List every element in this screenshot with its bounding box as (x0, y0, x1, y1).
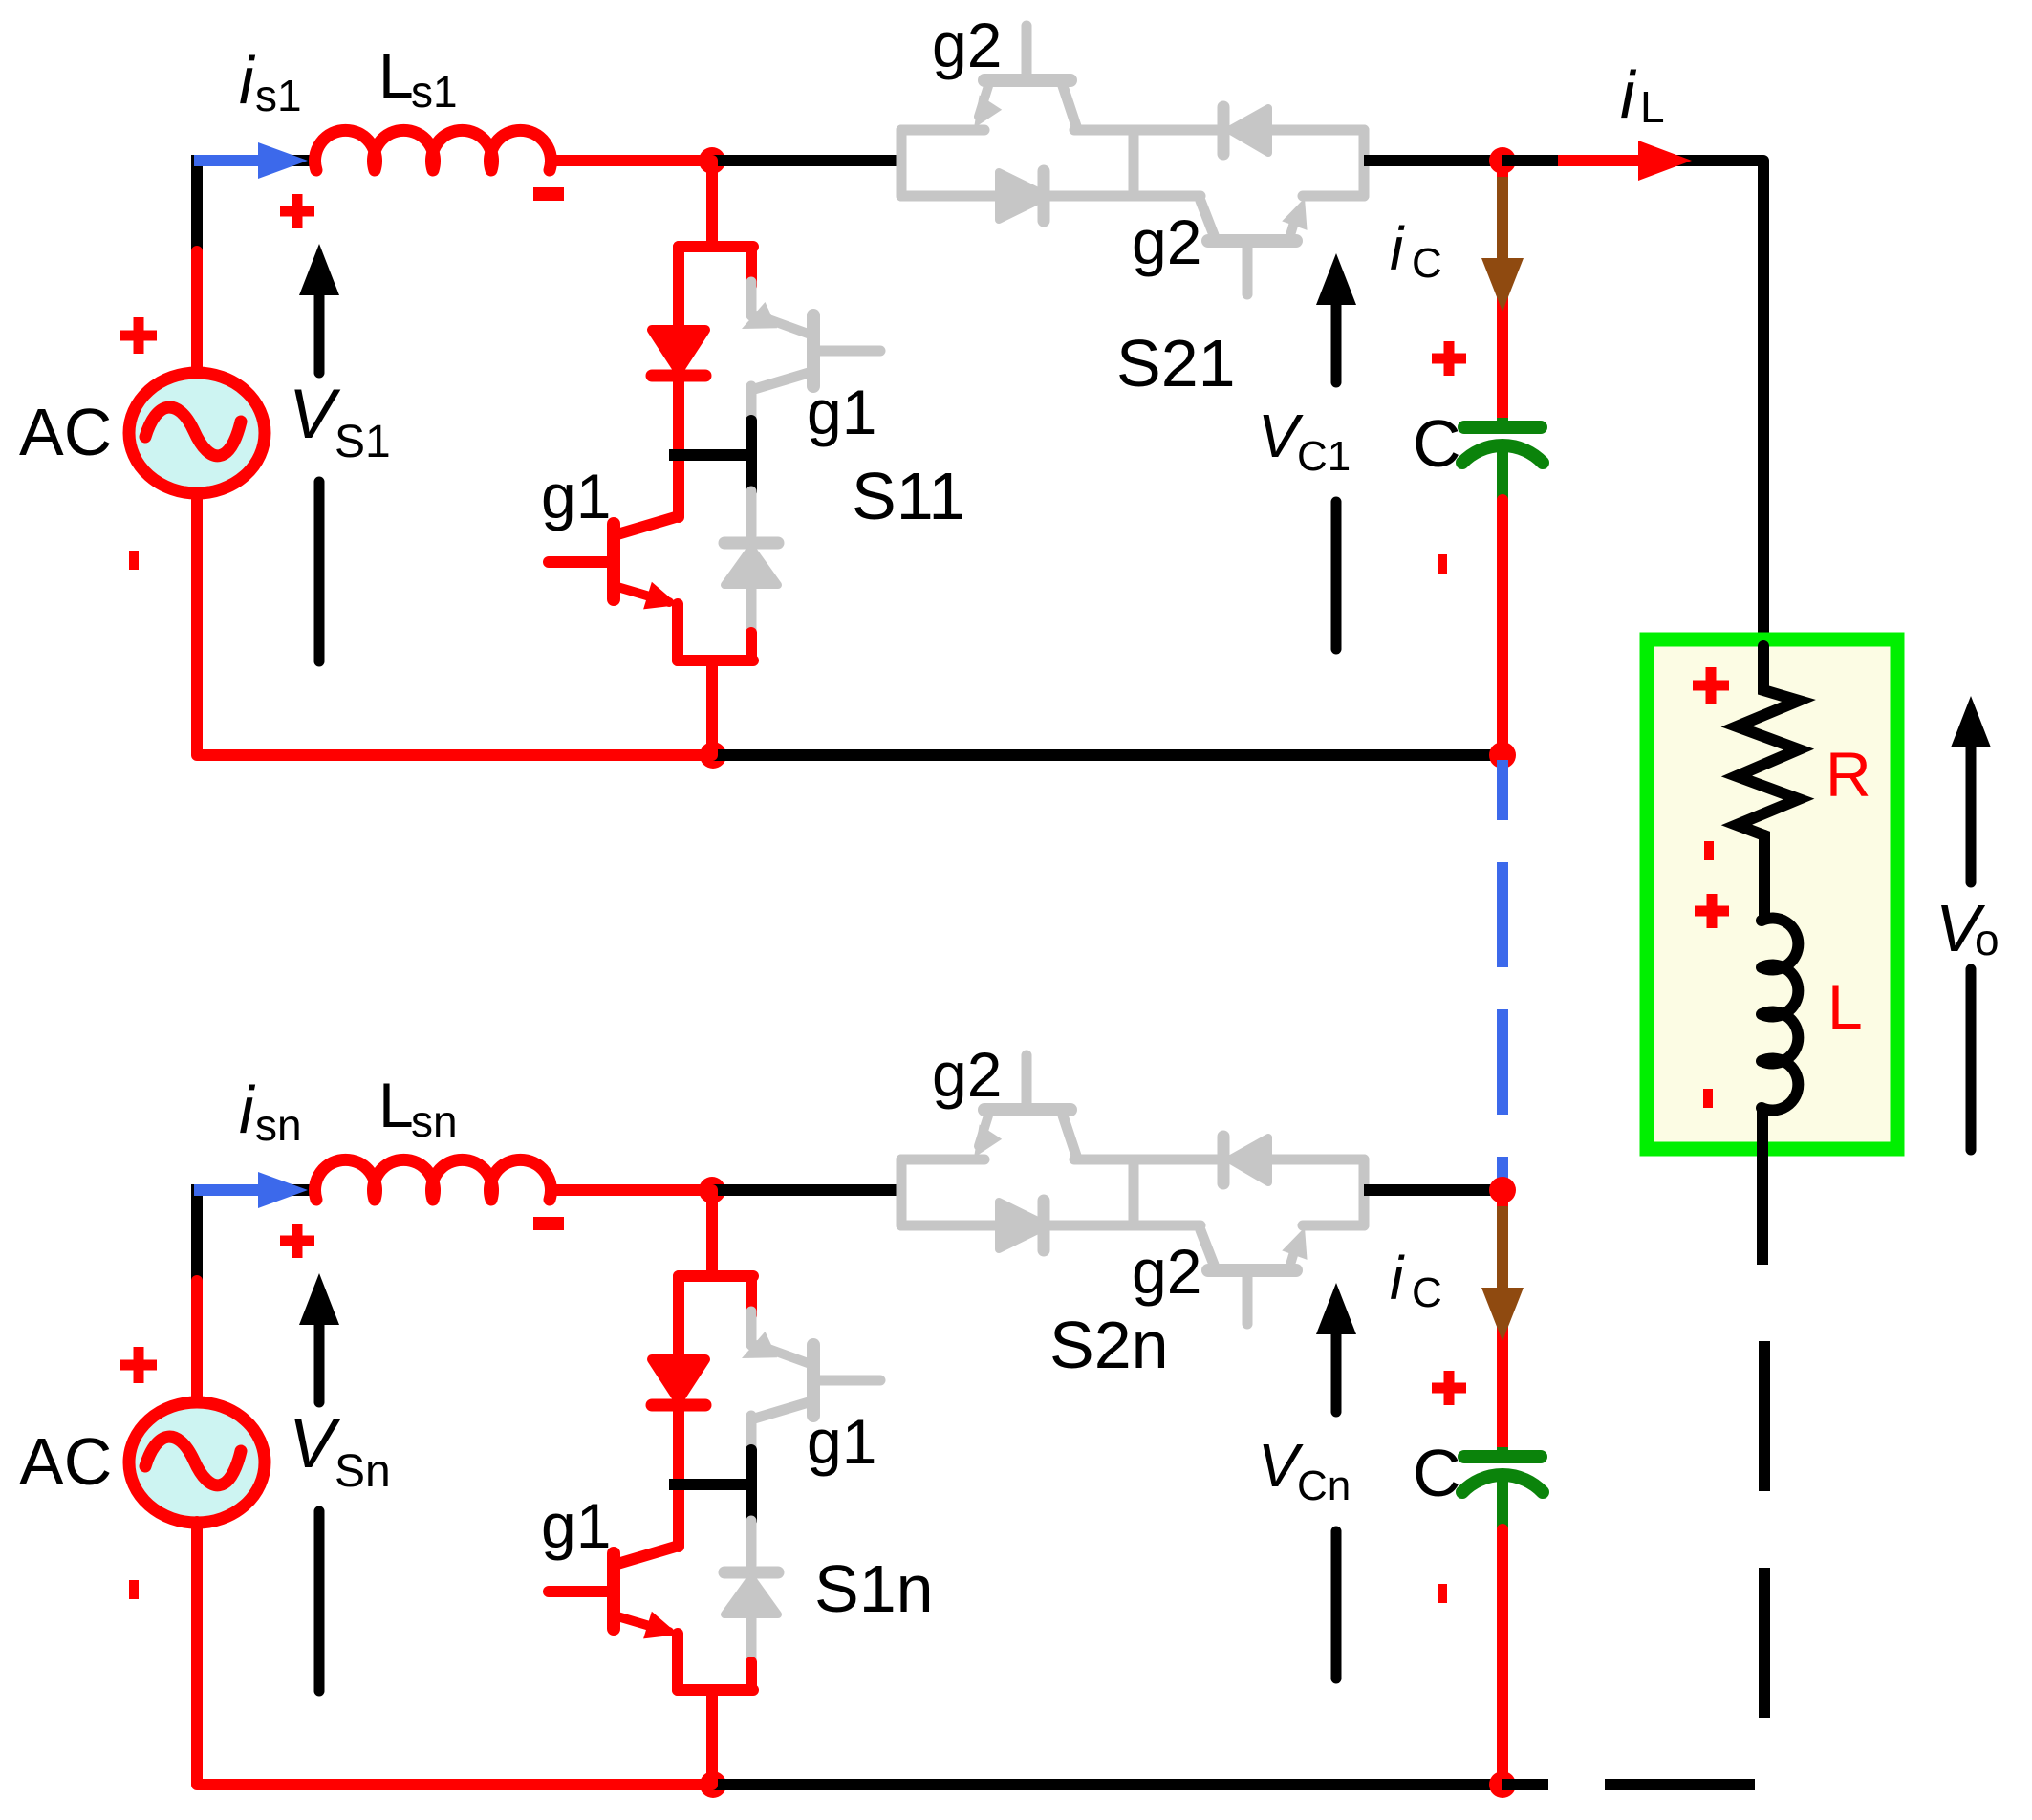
switch S11: top stub (706, 161, 718, 247)
svg-text:s1: s1 (411, 67, 458, 117)
svg-text:g2: g2 (1132, 1236, 1201, 1307)
svg-text:g1: g1 (541, 461, 611, 531)
current arrow i_C (brown) cell 1 (1497, 177, 1508, 260)
switch S2n: left terminal bar (897, 1159, 907, 1225)
switch S2n: middle junction bar (1129, 1159, 1139, 1225)
node: top junction of S1n (699, 1177, 725, 1203)
switch S1n: gray leg below diode (746, 1614, 757, 1666)
IGBT T2a1 (gray): emitter lead with arrow (979, 86, 988, 117)
wire: inductor to node of S1n (550, 1184, 712, 1196)
svg-text:S1n: S1n (814, 1551, 934, 1626)
wire: bottom rail left (red) of cell 1 (197, 749, 713, 761)
polarity - of capacitor C cell n (1438, 1584, 1447, 1603)
current arrow i_L (red) (1558, 155, 1638, 166)
svg-text:g2: g2 (932, 10, 1002, 80)
arrow V_Cn (upper part) (1331, 1334, 1342, 1412)
svg-text:i: i (1390, 1244, 1405, 1312)
node: junction below S11 (700, 742, 726, 769)
svg-text:Cn: Cn (1297, 1462, 1351, 1509)
svg-text:i: i (239, 43, 256, 118)
switch S11: gray leg above diode (746, 491, 757, 535)
svg-text:s1: s1 (255, 71, 302, 120)
svg-text:S21: S21 (1116, 326, 1236, 401)
polarity + of inductor L (1695, 906, 1729, 917)
wire: top-left black segment of cell n (292, 1184, 320, 1196)
switch S21: bottom leg left segment (901, 191, 1000, 202)
switch S21: bottom leg right segment (1303, 191, 1364, 202)
diode D2a1 (gray, conducts leftward) (1218, 107, 1230, 154)
switch S1n: right leg (gray) (746, 1311, 757, 1345)
wire: AC source VS1 top lead (black segment) (191, 155, 203, 255)
arrow V_o (upper part) (1966, 747, 1977, 882)
diode D1n (red, conducts downward) (652, 1359, 705, 1400)
gate tick (black) of S1n (669, 1479, 751, 1490)
IGBT T1b1 (gray): emitter lead with arrow (758, 315, 811, 335)
svg-text:i: i (1390, 214, 1405, 283)
switch S11: left leg upper segment (673, 247, 684, 332)
svg-text:o: o (1975, 915, 2000, 964)
wire: AC source VSn bottom lead (191, 1522, 203, 1785)
IGBT T1an (red): collector lead (617, 1546, 679, 1564)
node: top junction of capacitor C cell n (1489, 1177, 1516, 1203)
IGBT T2b1 (gray): gate lead g2 (1243, 241, 1253, 294)
svg-text:S1: S1 (335, 417, 391, 467)
svg-text:sn: sn (411, 1096, 458, 1146)
wire: capacitor C upper lead (red) cell 1 (1497, 161, 1508, 422)
switch S11: left leg middle segment (673, 376, 684, 517)
switch S1n: right leg top (red) (746, 1276, 757, 1315)
IGBT T2an (gray): body bar (984, 1103, 1070, 1116)
svg-text:R: R (1826, 739, 1871, 810)
IGBT T2an (gray): collector lead (1063, 1116, 1076, 1156)
polarity + of L_sn (280, 1236, 314, 1246)
polarity + of capacitor C cell n (1432, 1383, 1466, 1394)
IGBT T1b1 (gray): collector lead (751, 373, 809, 390)
switch S11: right leg (gray) (746, 282, 757, 315)
resistor R zigzag (1737, 646, 1799, 917)
switch S1n: gray leg above diode (746, 1521, 757, 1565)
svg-text:AC: AC (19, 1424, 112, 1499)
node: junction below capacitor C of cell 1 (1489, 742, 1516, 769)
capacitor C cell 1: upper lead (green) (1497, 418, 1508, 427)
AC source VSn sine symbol (145, 1437, 241, 1485)
gate tick (black) of S11 (669, 449, 751, 461)
svg-text:C: C (1412, 1269, 1442, 1316)
switch S21: bottom leg middle segment (1048, 191, 1200, 202)
polarity - of source VSn (129, 1580, 139, 1599)
svg-text:L: L (378, 40, 414, 111)
switch S2n: bottom leg right segment (1303, 1221, 1364, 1231)
IGBT T1b1 (gray): body bar (807, 315, 820, 386)
svg-text:i: i (1620, 57, 1637, 132)
wire: bottom rail left (red) of cell n (197, 1779, 713, 1790)
arrow V_S1 (lower part) (314, 482, 325, 661)
switch S11: right leg bottom (red) (746, 633, 757, 661)
svg-text:L: L (1827, 971, 1863, 1042)
capacitor C cell n: upper lead (green) (1497, 1447, 1508, 1457)
polarity + of capacitor C cell 1 (1432, 354, 1466, 364)
arrow V_o (lower part) (1966, 969, 1977, 1150)
polarity - of L_s1 (533, 187, 564, 201)
node: top junction of S11 (699, 147, 725, 174)
switch S2n: right terminal bar (1359, 1159, 1370, 1225)
wire: node to switch S2n (black) (712, 1184, 901, 1196)
capacitor C cell n: curved bottom plate (1462, 1475, 1543, 1492)
svg-text:L: L (1640, 82, 1665, 132)
IGBT T2a1 (gray): body bar (984, 74, 1070, 87)
switch S11: top bar (679, 241, 753, 252)
switch S1n: left leg lower segment (672, 1634, 683, 1690)
capacitor C cell 1: top plate (1464, 421, 1541, 434)
switch S11: left leg lower segment (672, 604, 683, 661)
arrow V_Sn (lower part) (314, 1511, 325, 1691)
IGBT T2a1 (gray): gate lead g2 (1022, 26, 1032, 80)
IGBT T2bn (gray): gate lead g2 (1243, 1270, 1253, 1324)
polarity + of source VS1 (120, 331, 157, 341)
IGBT T2b1 (gray): collector lead (1200, 201, 1214, 235)
wire: inter-cell link (blue, dashed) (1497, 862, 1508, 1190)
IGBT T1bn (gray): body bar (807, 1345, 820, 1416)
switch S21: top leg right segment (1269, 125, 1364, 136)
wire: S2n to capacitor node (black) (1364, 1184, 1502, 1196)
switch S21: middle junction bar (1129, 130, 1139, 196)
wire: bottom rail right (black) of cell 1 (713, 749, 1502, 761)
AC source VSn body (129, 1402, 265, 1523)
switch S11: gray leg segment below IGBT (746, 386, 757, 424)
svg-text:g1: g1 (807, 1406, 876, 1477)
inductor L_sn (314, 1159, 551, 1200)
IGBT T2b1 (gray): emitter lead with arrow (1290, 216, 1296, 235)
inductor L coil (1762, 835, 1798, 1110)
wire: load bottom lead (solid) (1757, 1107, 1768, 1265)
wire: top-left black segment of cell 1 (292, 155, 320, 166)
svg-text:V: V (289, 376, 341, 453)
IGBT T1b1 (gray): gate lead (813, 346, 880, 357)
current arrow i_s1 (blue) (194, 155, 260, 166)
switch S1n: top bar (679, 1270, 753, 1282)
IGBT T2a1 (gray): collector lead (1063, 86, 1076, 126)
svg-text:i: i (239, 1072, 256, 1147)
svg-text:g2: g2 (1132, 206, 1201, 277)
polarity + of L_s1 (280, 206, 314, 217)
AC source VS1 body (129, 373, 265, 493)
arrow V_C1 (upper part) (1331, 305, 1342, 382)
wire: inductor to node of S11 (550, 155, 712, 166)
IGBT T2b1 (gray): body bar (1208, 234, 1296, 248)
svg-text:Sn: Sn (335, 1446, 391, 1497)
arrow V_Cn (lower part) (1331, 1531, 1342, 1679)
diode D2an (gray, conducts leftward) (1218, 1137, 1230, 1183)
arrow V_C1 (lower part) (1331, 502, 1342, 649)
svg-text:C1: C1 (1297, 433, 1351, 480)
svg-text:C: C (1413, 1436, 1461, 1510)
capacitor C cell 1: curved bottom plate (1462, 445, 1543, 463)
current arrow i_C (brown) cell n (1497, 1206, 1508, 1289)
polarity - of capacitor C cell 1 (1438, 554, 1447, 574)
IGBT T1a1 (red): gate lead g1 (549, 556, 614, 568)
current arrow i_sn (blue) (194, 1184, 260, 1196)
wire: AC source VSn top lead (red segment) (191, 1281, 203, 1403)
node: junction below capacitor C of cell n (1489, 1771, 1516, 1798)
IGBT T2an (gray): emitter lead with arrow (979, 1116, 988, 1146)
switch S11: right leg top (red) (746, 247, 757, 286)
switch S1n: bottom stub (706, 1690, 718, 1785)
diode D1b1 (gray, conducts upward) (724, 537, 778, 550)
polarity - of inductor L (1703, 1089, 1713, 1108)
AC source VS1 sine symbol (145, 407, 241, 456)
diode D11 (red, conducts downward) (652, 330, 705, 371)
switch S2n: bottom leg left segment (901, 1221, 1000, 1231)
arrow V_Sn (upper part) (314, 1324, 325, 1402)
arrow V_S1 (upper part) (314, 294, 325, 373)
wire: capacitor node to load corner (black) (1502, 161, 1763, 690)
switch S11: bottom bar (678, 655, 753, 666)
switch S2n: top leg left segment (901, 1155, 984, 1165)
IGBT T2bn (gray): emitter lead with arrow (1290, 1246, 1296, 1265)
svg-text:L: L (378, 1070, 414, 1140)
wire: capacitor C lower lead (red) cell n (1497, 1529, 1508, 1785)
inductor L_s1 (315, 130, 551, 170)
switch S21: top leg middle segment (1074, 125, 1224, 136)
svg-text:AC: AC (19, 395, 112, 469)
switch S1n: bottom bar (678, 1684, 753, 1696)
wire: AC source VS1 bottom lead (191, 492, 203, 755)
switch S1n: left leg upper segment (673, 1276, 684, 1361)
diode D1bn (gray, conducts upward) (724, 1567, 778, 1579)
wire: bottom rail right (black) of cell n (713, 1779, 1502, 1790)
svg-text:C: C (1412, 240, 1442, 287)
wire: load return path (dashed) (1516, 1341, 1764, 1785)
IGBT T1bn (gray): collector lead (751, 1402, 809, 1419)
switch S21: left terminal bar (897, 130, 907, 196)
svg-text:g1: g1 (541, 1490, 611, 1561)
switch S2n: top leg middle segment (1074, 1155, 1224, 1165)
polarity + of resistor R (1693, 681, 1729, 691)
wire: inter-cell link (blue, solid stub) (1497, 760, 1508, 820)
diode D2bn (gray, conducts rightward) (999, 1202, 1048, 1249)
svg-text:C: C (1413, 406, 1461, 481)
capacitor C cell n: top plate (1464, 1450, 1541, 1463)
switch S1n: right leg bottom (red) (746, 1662, 757, 1690)
switch S11: gray leg below diode (746, 585, 757, 637)
gate bar (black) of S11 (746, 421, 757, 491)
switch S2n: bottom leg middle segment (1048, 1221, 1200, 1231)
node: junction below S1n (700, 1771, 726, 1798)
wire: S21 to capacitor node (black) (1364, 155, 1502, 166)
diode D2b1 (gray, conducts rightward) (999, 172, 1048, 220)
switch S11: bottom stub (706, 661, 718, 755)
capacitor C cell 1: lower lead (green) (1497, 449, 1508, 502)
wire: capacitor C lower lead (red) cell 1 (1497, 500, 1508, 755)
IGBT T1a1 (red): collector lead (617, 516, 679, 534)
svg-text:S11: S11 (852, 459, 965, 533)
gate bar (black) of S1n (746, 1450, 757, 1521)
wire: AC source VSn top lead (black segment) (191, 1184, 203, 1285)
IGBT T1bn (gray): gate lead (813, 1376, 880, 1386)
wire: node to switch S21 (black) (712, 155, 901, 166)
capacitor C cell n: lower lead (green) (1497, 1479, 1508, 1531)
polarity - of resistor R (1704, 841, 1714, 860)
svg-text:g1: g1 (807, 377, 876, 447)
IGBT T1an (red): body bar (607, 1553, 620, 1629)
svg-text:S2n: S2n (1049, 1308, 1169, 1382)
IGBT T2bn (gray): collector lead (1200, 1230, 1214, 1265)
load box (R-L load) (1647, 639, 1897, 1149)
IGBT T1a1 (red): body bar (607, 524, 620, 599)
switch S1n: top stub (706, 1190, 718, 1276)
wire: AC source VS1 top lead (red segment) (191, 251, 203, 374)
switch S1n: gray leg segment below IGBT (746, 1416, 757, 1454)
IGBT T1a1 (red): emitter lead with arrow (617, 587, 669, 602)
svg-text:g2: g2 (932, 1039, 1002, 1110)
IGBT T2bn (gray): body bar (1208, 1264, 1296, 1277)
wire: capacitor C upper lead (red) cell n (1497, 1190, 1508, 1451)
IGBT T1an (red): gate lead g1 (549, 1586, 614, 1597)
polarity - of source VS1 (129, 551, 139, 570)
switch S21: right terminal bar (1359, 130, 1370, 196)
switch S1n: left leg middle segment (673, 1405, 684, 1547)
IGBT T1an (red): emitter lead with arrow (617, 1616, 669, 1632)
wire: bottom cell to load return (black stub) (1502, 1779, 1548, 1790)
IGBT T2an (gray): gate lead g2 (1022, 1055, 1032, 1110)
switch S2n: top leg right segment (1269, 1155, 1364, 1165)
switch S21: top leg left segment (901, 125, 984, 136)
IGBT T1bn (gray): emitter lead with arrow (758, 1345, 811, 1364)
svg-text:V: V (289, 1405, 341, 1483)
polarity - of L_sn (533, 1217, 564, 1230)
node: top junction of capacitor C cell 1 (1489, 147, 1516, 174)
polarity + of source VSn (120, 1360, 157, 1371)
svg-text:sn: sn (255, 1100, 302, 1150)
